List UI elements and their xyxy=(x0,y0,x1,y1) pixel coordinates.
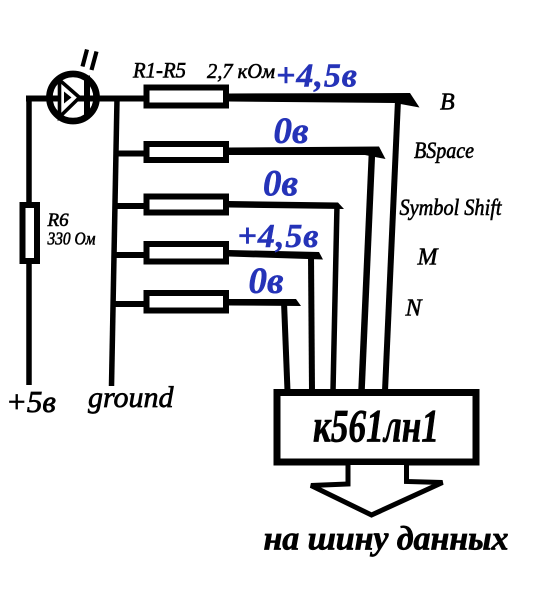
resistor R4 xyxy=(147,244,227,262)
resistor R5 xyxy=(147,293,227,311)
resistor R1 xyxy=(147,88,227,106)
wire: left vertical to +5v xyxy=(26,96,32,385)
wire: row2 to node BSpace (wedge end) xyxy=(229,147,386,160)
wire: vertical v2 xyxy=(362,152,373,391)
IC U1 к561лн1 xyxy=(277,393,476,463)
svg-text:N: N xyxy=(405,296,424,322)
svg-text:+4,5в: +4,5в xyxy=(238,218,319,255)
wire: row4 to node M (wedge end) xyxy=(229,250,323,260)
wire: row3 to node Symbol Shift xyxy=(229,201,344,209)
svg-text:B: B xyxy=(440,90,455,116)
svg-text:2,7 кОм: 2,7 кОм xyxy=(207,59,275,83)
svg-text:на шину данных: на шину данных xyxy=(264,521,509,558)
svg-text:330 Ом: 330 Ом xyxy=(47,229,96,249)
svg-text:к561лн1: к561лн1 xyxy=(313,401,439,453)
wire: row5 to node N xyxy=(229,299,301,306)
wire: ground bus vertical xyxy=(112,99,118,386)
wire: stub row5 xyxy=(112,301,144,307)
svg-text:+5в: +5в xyxy=(6,384,56,419)
wire: row1 to node B (wedge end) xyxy=(229,93,420,108)
svg-text:R1-R5: R1-R5 xyxy=(132,58,186,83)
wire: stub row4 xyxy=(113,252,145,258)
resistor R3 xyxy=(147,197,227,213)
wire: vertical v3 xyxy=(333,205,337,391)
svg-text:ground: ground xyxy=(88,381,175,414)
wire: stub row3 xyxy=(113,203,144,209)
svg-text:M: M xyxy=(417,245,440,271)
resistor R2 xyxy=(147,144,227,160)
svg-text:0в: 0в xyxy=(263,164,298,205)
wire: vertical v5 xyxy=(284,302,288,391)
arrow to data bus xyxy=(311,465,443,515)
svg-text:+4,5в: +4,5в xyxy=(276,58,357,95)
LED D1 xyxy=(49,50,96,122)
wire: vertical v4 xyxy=(311,255,312,391)
resistor R6 xyxy=(23,205,38,261)
svg-text:0в: 0в xyxy=(274,111,309,152)
svg-text:0в: 0в xyxy=(249,261,284,302)
svg-text:Symbol Shift: Symbol Shift xyxy=(400,195,503,220)
svg-text:BSpace: BSpace xyxy=(414,138,474,163)
wire: vertical v1 xyxy=(385,100,398,391)
wire: stub row2 xyxy=(114,151,144,157)
wire: +5v rail horizontal through LED xyxy=(26,96,147,102)
